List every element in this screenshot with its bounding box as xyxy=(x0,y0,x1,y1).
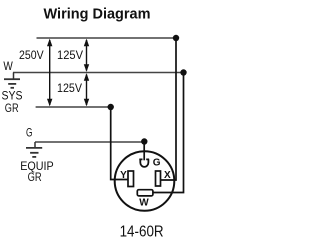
svg-text:G: G xyxy=(26,126,33,140)
svg-text:Y: Y xyxy=(120,170,127,181)
svg-text:14-60R: 14-60R xyxy=(120,223,164,240)
svg-text:Wiring Diagram: Wiring Diagram xyxy=(44,7,151,23)
svg-text:W: W xyxy=(3,59,13,73)
svg-text:G: G xyxy=(153,158,161,169)
svg-text:125V: 125V xyxy=(57,48,83,62)
svg-text:X: X xyxy=(164,170,171,181)
svg-text:250V: 250V xyxy=(19,48,44,62)
svg-text:GR: GR xyxy=(28,170,42,184)
svg-text:125V: 125V xyxy=(57,81,82,95)
svg-text:GR: GR xyxy=(5,101,19,115)
svg-text:W: W xyxy=(139,198,149,209)
